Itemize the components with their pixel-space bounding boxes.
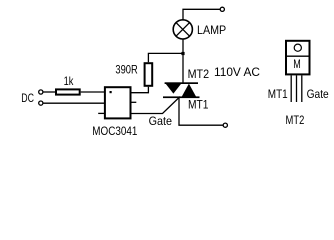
resistor R1 1k <box>56 89 80 94</box>
package outline TO-220 <box>286 41 310 75</box>
wire R2 bottom to U1 pin 6 <box>132 87 149 93</box>
wire U1 pin 4 to gate <box>132 97 181 114</box>
wire DC minus to U1 pin 2 <box>43 102 104 104</box>
terminal AC top <box>220 7 224 11</box>
svg-text:390R: 390R <box>115 62 138 76</box>
wire triac MT1 to AC terminal bottom <box>179 98 223 125</box>
svg-text:110V AC: 110V AC <box>214 65 260 79</box>
package leg MT1 <box>290 75 292 102</box>
pin 1 marker <box>110 91 112 93</box>
svg-text:MT2: MT2 <box>286 113 305 127</box>
svg-text:Gate: Gate <box>149 114 173 128</box>
svg-text:1k: 1k <box>64 74 75 88</box>
svg-text:MOC3041: MOC3041 <box>92 124 137 138</box>
wire lamp top to AC terminal <box>183 9 220 20</box>
svg-text:MT2: MT2 <box>188 67 210 81</box>
resistor R2 390R <box>145 63 153 86</box>
package tab divider <box>285 55 311 57</box>
svg-text:MT1: MT1 <box>188 98 209 112</box>
package leg Gate <box>301 75 303 102</box>
node junction <box>181 52 184 55</box>
pin 5 stub <box>132 101 137 103</box>
terminal DC plus <box>39 90 43 94</box>
package leg MT2 <box>296 75 298 102</box>
wire DC plus to R1 <box>43 91 55 93</box>
pin 3 stub <box>98 112 104 114</box>
svg-text:LAMP: LAMP <box>197 23 226 37</box>
op-to-coupler U1 MOC3041 <box>105 87 131 118</box>
wire R1 to U1 pin 1 <box>81 91 105 93</box>
terminal DC minus <box>39 101 43 105</box>
package mounting hole <box>294 44 301 51</box>
triac Q1 <box>163 82 200 98</box>
lamp L1 <box>173 20 192 39</box>
wire lamp bottom to triac MT2 <box>182 39 184 83</box>
svg-text:MT1: MT1 <box>268 87 288 101</box>
svg-text:Gate: Gate <box>307 87 329 101</box>
wire junction to R2 top <box>148 53 183 62</box>
terminal AC bottom <box>223 123 227 127</box>
svg-text:DC: DC <box>21 91 34 105</box>
svg-text:M: M <box>293 57 301 71</box>
